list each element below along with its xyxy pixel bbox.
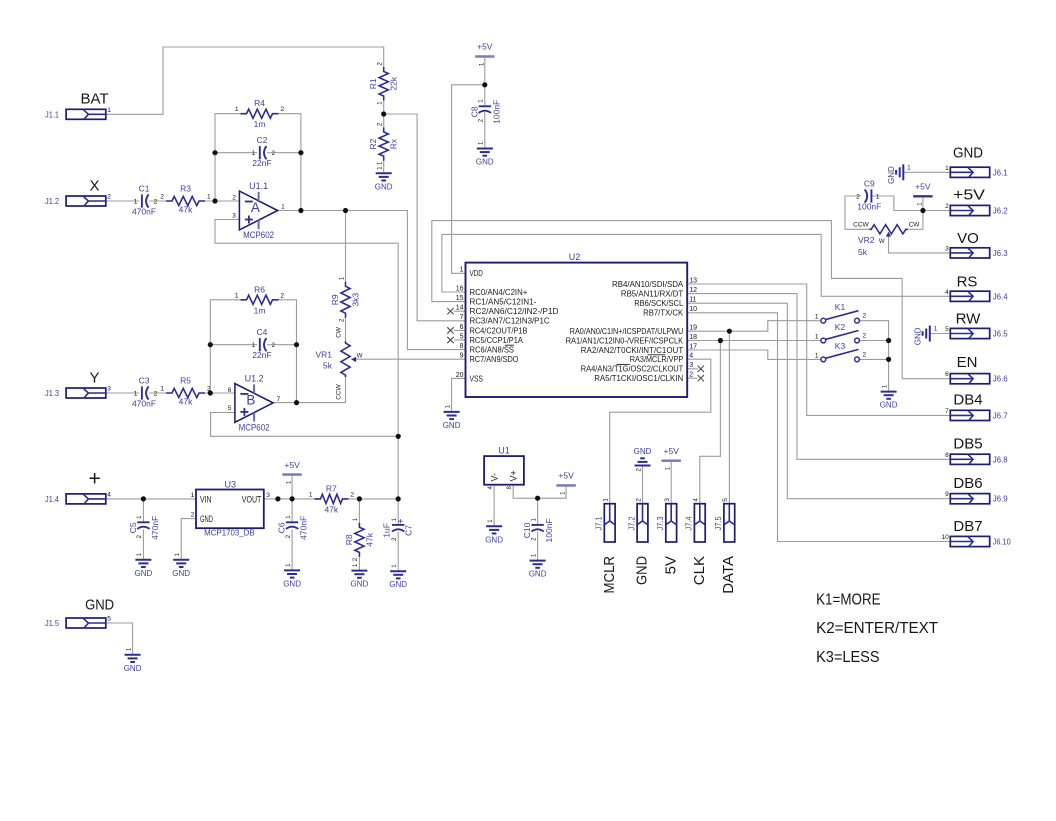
svg-text:K1: K1 <box>835 302 846 312</box>
svg-text:8: 8 <box>945 452 949 459</box>
svg-text:RA3/MCLR/VPP: RA3/MCLR/VPP <box>630 354 684 364</box>
svg-text:1: 1 <box>235 106 239 113</box>
connector J7.5 <box>724 504 735 542</box>
svg-text:C2: C2 <box>256 135 267 145</box>
svg-text:V+: V+ <box>508 470 518 481</box>
IC U1 supply pins <box>484 456 524 485</box>
svg-text:CLK: CLK <box>691 556 708 585</box>
capacitor C9 <box>870 189 872 202</box>
svg-text:2: 2 <box>107 194 111 201</box>
svg-text:5: 5 <box>722 498 729 502</box>
svg-text:5: 5 <box>945 326 949 333</box>
svg-text:5V: 5V <box>662 556 679 574</box>
wire C4 left <box>210 344 257 346</box>
svg-text:47k: 47k <box>324 504 338 514</box>
capacitor C7 <box>392 524 404 526</box>
svg-text:EN: EN <box>957 354 978 371</box>
node U1 bypass <box>535 496 540 501</box>
svg-text:470nF: 470nF <box>132 207 156 217</box>
svg-text:U2: U2 <box>569 252 581 262</box>
svg-text:9: 9 <box>460 353 464 360</box>
svg-text:C6: C6 <box>277 522 287 533</box>
connector J6.4 <box>950 291 989 301</box>
svg-text:470nF: 470nF <box>150 516 160 540</box>
power +5V C8 <box>475 55 494 57</box>
svg-text:1: 1 <box>945 165 949 172</box>
wire C2 right <box>267 152 301 154</box>
svg-text:4: 4 <box>693 498 700 502</box>
wire K3 to ground bus <box>859 358 888 360</box>
wire J1.4 to U3 VIN <box>106 498 196 500</box>
node J6.2 +5V <box>920 208 925 213</box>
connector J6.7 <box>950 410 989 420</box>
svg-text:5k: 5k <box>323 361 333 371</box>
wire U2 VSS to ground <box>452 378 466 412</box>
svg-text:DB5: DB5 <box>953 436 982 453</box>
switch K1 <box>821 318 826 323</box>
svg-text:U1: U1 <box>498 446 510 456</box>
wire R1 to R2 <box>383 101 385 128</box>
ground J6.5 <box>929 326 931 342</box>
wire C5 to ground <box>142 530 144 560</box>
ground U3 <box>173 559 189 561</box>
wire J6.1 GND <box>903 171 950 173</box>
potentiometer VR2 <box>869 225 908 234</box>
ground R8 <box>351 570 367 572</box>
svg-text:47k: 47k <box>179 205 193 215</box>
wire C6 to ground <box>291 530 293 571</box>
svg-text:J1.3: J1.3 <box>45 388 59 398</box>
wire C6 up <box>291 499 293 522</box>
svg-text:2: 2 <box>272 150 276 157</box>
svg-text:DB7: DB7 <box>953 518 982 535</box>
IC U3 MCP1703 <box>196 490 264 529</box>
svg-text:18: 18 <box>689 334 697 341</box>
ground U1 <box>486 525 502 527</box>
node VOUT stub <box>275 496 280 501</box>
wire C5 up <box>142 499 144 522</box>
wire R8 top <box>358 499 360 523</box>
svg-text:12: 12 <box>689 287 697 294</box>
svg-text:GND: GND <box>880 401 898 410</box>
power +5V U1 <box>556 484 575 486</box>
svg-text:K3=LESS: K3=LESS <box>816 649 880 666</box>
svg-text:J7.1: J7.1 <box>594 516 604 530</box>
svg-text:VR1: VR1 <box>315 350 332 360</box>
wire VR2 wiper to J6.3 VO <box>889 234 951 253</box>
svg-text:C3: C3 <box>139 376 150 386</box>
svg-text:1: 1 <box>603 498 610 502</box>
svg-text:1: 1 <box>815 334 819 341</box>
wire U2 RB5 to J6.8 DB5 <box>687 294 950 460</box>
wire A output to R9 <box>345 211 347 282</box>
node DATA <box>727 329 732 334</box>
svg-text:1: 1 <box>160 386 164 393</box>
svg-text:J6.7: J6.7 <box>993 410 1008 420</box>
wire U2 RB6 to J6.9 DB6 <box>687 303 950 499</box>
wire U2 RC1 to J6.6 EN <box>432 221 951 379</box>
svg-text:1: 1 <box>460 267 464 274</box>
svg-text:K1=MORE: K1=MORE <box>816 592 881 609</box>
node B in <box>208 390 213 395</box>
svg-text:R2: R2 <box>368 138 378 149</box>
wire C1 to R3 <box>149 200 166 202</box>
svg-text:1: 1 <box>281 204 285 211</box>
wire B output to VR1 <box>273 377 345 403</box>
wire R8 to ground <box>358 557 360 571</box>
capacitor C5 <box>137 521 149 523</box>
svg-text:1m: 1m <box>254 119 266 129</box>
svg-text:C1: C1 <box>139 184 150 194</box>
svg-text:1: 1 <box>309 491 313 498</box>
svg-text:3k3: 3k3 <box>351 293 361 307</box>
connector J6.8 <box>950 454 989 464</box>
svg-text:X: X <box>89 177 99 194</box>
node B out fb <box>294 400 299 405</box>
connector J6.1 <box>950 167 989 177</box>
svg-text:5k: 5k <box>858 247 868 257</box>
svg-text:470nF: 470nF <box>132 399 156 409</box>
svg-text:DB4: DB4 <box>953 391 982 408</box>
svg-text:RB6/SCK/SCL: RB6/SCK/SCL <box>634 298 683 308</box>
ground C5 <box>135 559 151 561</box>
svg-text:1: 1 <box>134 391 138 398</box>
wire C8 to ground <box>484 112 486 149</box>
svg-text:BAT: BAT <box>80 90 108 107</box>
svg-text:U1.2: U1.2 <box>245 373 264 383</box>
resistor R8 <box>355 523 364 557</box>
ground C7 <box>390 570 406 572</box>
svg-text:RC3/AN7/C12IN3/P1C: RC3/AN7/C12IN3/P1C <box>470 316 550 326</box>
wire U2 RB7 to J6.10 DB7 <box>687 313 950 542</box>
svg-text:100nF: 100nF <box>491 100 501 124</box>
svg-text:GND: GND <box>485 535 503 544</box>
svg-text:17: 17 <box>689 343 697 350</box>
capacitor C6 <box>286 521 298 523</box>
resistor R5 <box>166 388 205 397</box>
wire +5V to VOUT junction <box>291 476 293 499</box>
svg-text:MCP602: MCP602 <box>243 230 274 240</box>
wire K2 to ground bus <box>859 340 888 342</box>
node A out fb <box>298 208 303 213</box>
svg-text:+: + <box>395 518 405 523</box>
capacitor C3 <box>141 386 143 399</box>
svg-text:C7: C7 <box>404 525 414 536</box>
wire VR1 wiper to U2 RC7 <box>355 358 466 360</box>
svg-text:GND: GND <box>85 596 114 613</box>
node B fb left <box>208 342 213 347</box>
svg-text:6: 6 <box>460 324 464 331</box>
connector J6.9 <box>950 494 989 504</box>
svg-text:GND: GND <box>172 569 190 578</box>
svg-text:DB6: DB6 <box>953 475 982 492</box>
svg-text:V-: V- <box>489 473 499 482</box>
svg-text:J1.1: J1.1 <box>45 109 59 119</box>
svg-text:3: 3 <box>689 362 693 369</box>
ground U2 VSS <box>444 411 460 413</box>
wire B feedback left <box>210 300 240 393</box>
svg-text:J7.5: J7.5 <box>713 516 723 530</box>
svg-text:RC1/AN5/C12IN1-: RC1/AN5/C12IN1- <box>470 297 537 307</box>
svg-text:7: 7 <box>945 408 949 415</box>
svg-text:K2: K2 <box>835 322 846 332</box>
svg-text:C5: C5 <box>128 522 138 533</box>
svg-text:1: 1 <box>876 194 880 201</box>
svg-text:GND: GND <box>914 327 923 345</box>
svg-text:3: 3 <box>664 498 671 502</box>
no-connect RA5 <box>698 375 704 381</box>
svg-text:13: 13 <box>689 277 697 284</box>
svg-text:2: 2 <box>281 106 285 113</box>
svg-text:1: 1 <box>107 107 111 114</box>
node A in <box>212 198 217 203</box>
svg-text:47k: 47k <box>179 397 193 407</box>
svg-text:22k: 22k <box>389 76 399 90</box>
wire J1.1 BAT to R1 <box>106 47 384 114</box>
svg-text:GND: GND <box>634 556 651 585</box>
svg-text:RB4/AN10/SDI/SDA: RB4/AN10/SDI/SDA <box>612 279 684 289</box>
svg-text:RC2/AN6/C12/IN2-/P1D: RC2/AN6/C12/IN2-/P1D <box>470 306 559 316</box>
switch K2 <box>821 338 826 343</box>
wire U1 V- to ground <box>493 485 495 527</box>
svg-text:RC0/AN4/C2IN+: RC0/AN4/C2IN+ <box>470 287 528 297</box>
wire U1 V+ to +5V <box>513 485 566 499</box>
IC U2 PIC16F690 <box>466 263 688 397</box>
svg-text:J6.4: J6.4 <box>993 291 1008 301</box>
wire C7 to ground <box>397 532 399 571</box>
svg-text:+5V: +5V <box>477 42 493 52</box>
svg-text:GND: GND <box>443 421 461 430</box>
svg-text:Y: Y <box>89 370 99 387</box>
svg-text:GND: GND <box>529 570 547 579</box>
wire U2 RA2 to K3 <box>687 350 821 359</box>
svg-text:U3: U3 <box>225 479 237 489</box>
connector J1.5 <box>66 618 106 628</box>
wire K1 to ground bus <box>859 321 888 392</box>
wire U3 GND pin to ground <box>181 519 196 560</box>
svg-text:2: 2 <box>945 203 949 210</box>
node B fb right <box>294 342 299 347</box>
svg-text:+5V: +5V <box>915 182 931 192</box>
svg-text:U1.1: U1.1 <box>249 181 268 191</box>
svg-text:VOUT: VOUT <box>242 494 262 504</box>
wire U2 RA4 stub <box>687 368 697 370</box>
wire C3 to R5 <box>149 392 166 394</box>
potentiometer VR1 <box>341 341 350 377</box>
connector J1.3 <box>66 388 106 398</box>
wire R2 to ground <box>383 157 385 174</box>
svg-text:W: W <box>879 239 885 245</box>
svg-text:20: 20 <box>456 372 464 379</box>
svg-text:100nF: 100nF <box>544 518 554 542</box>
connector J6.10 <box>950 536 989 546</box>
wire +5V junction to U2 VDD <box>452 85 485 273</box>
svg-text:8: 8 <box>460 343 464 350</box>
svg-text:1: 1 <box>815 352 819 359</box>
svg-text:RC7/AN9/SDO: RC7/AN9/SDO <box>470 354 519 364</box>
wire CLK to J7.4 <box>700 341 721 504</box>
svg-text:R6: R6 <box>254 284 265 294</box>
svg-text:GND: GND <box>200 514 213 524</box>
svg-text:VSS: VSS <box>470 373 484 383</box>
connector J6.5 <box>950 328 989 338</box>
resistor R2 <box>379 128 388 161</box>
svg-text:+5V: +5V <box>953 186 985 203</box>
svg-text:+5V: +5V <box>558 471 574 481</box>
svg-text:CW: CW <box>909 222 921 229</box>
connector J1.4 <box>66 494 106 504</box>
connector J1.1 <box>66 109 106 119</box>
svg-text:J7.2: J7.2 <box>626 516 636 530</box>
node BAT divider <box>381 111 386 116</box>
svg-text:16: 16 <box>456 285 464 292</box>
svg-text:CW: CW <box>335 326 342 338</box>
svg-text:11: 11 <box>689 297 696 304</box>
resistor R9 <box>341 282 350 318</box>
svg-text:2: 2 <box>191 512 195 519</box>
svg-text:J1.4: J1.4 <box>45 494 59 504</box>
svg-text:J6.9: J6.9 <box>993 494 1008 504</box>
svg-text:Rx: Rx <box>389 138 399 149</box>
node A out R9 <box>343 208 348 213</box>
wire A feedback left <box>215 114 241 201</box>
wire C9 right to +5V junction <box>871 196 950 211</box>
node K3 gnd <box>886 357 891 362</box>
svg-text:RC4/C2OUT/P1B: RC4/C2OUT/P1B <box>470 325 528 335</box>
svg-text:7: 7 <box>277 396 281 403</box>
svg-text:2: 2 <box>350 491 354 498</box>
wire R7 to reference node <box>348 498 398 500</box>
wire U2 RC5 stub <box>454 339 466 341</box>
svg-text:R5: R5 <box>180 376 191 386</box>
wire U2 RC0 to J6.4 RS <box>442 234 950 296</box>
svg-text:VR2: VR2 <box>858 235 875 245</box>
power +5V J7.3 <box>662 460 681 462</box>
svg-text:GND: GND <box>887 166 896 184</box>
svg-text:RC6/AN8/SS: RC6/AN8/SS <box>470 345 515 355</box>
svg-text:1: 1 <box>252 150 256 157</box>
svg-text:19: 19 <box>689 325 697 332</box>
svg-text:4: 4 <box>107 491 111 498</box>
svg-text:7: 7 <box>460 314 464 321</box>
svg-text:C9: C9 <box>864 179 875 189</box>
svg-text:1: 1 <box>815 314 819 321</box>
connector J7.3 <box>666 504 677 542</box>
power +5V J6.2 <box>913 195 932 197</box>
wire C10 to ground <box>537 532 539 561</box>
svg-text:1m: 1m <box>254 305 266 315</box>
switch K3 <box>821 357 826 362</box>
wire R6 right to B output <box>279 300 297 403</box>
connector J6.3 <box>950 248 989 258</box>
svg-text:9: 9 <box>945 491 949 498</box>
svg-text:5: 5 <box>228 405 232 412</box>
svg-text:1uF: 1uF <box>382 523 392 538</box>
svg-text:1: 1 <box>207 194 211 201</box>
svg-text:2: 2 <box>863 333 867 340</box>
wire R4 right to A output <box>279 114 301 211</box>
svg-text:2: 2 <box>863 351 867 358</box>
svg-text:C10: C10 <box>522 522 532 538</box>
svg-text:2: 2 <box>856 194 860 201</box>
wire DATA to J7.5 <box>728 331 730 504</box>
svg-text:RB7/TX/CK: RB7/TX/CK <box>643 308 684 318</box>
svg-text:K3: K3 <box>835 341 846 351</box>
wire B pin 5 to reference <box>211 413 399 437</box>
ground J7.2 <box>635 465 651 467</box>
wire A output to U2 RC6 <box>278 211 466 350</box>
svg-text:MCLR: MCLR <box>601 556 618 594</box>
svg-text:RB5/AN11/RX/DT: RB5/AN11/RX/DT <box>621 289 683 299</box>
ground C10 <box>530 560 546 562</box>
ground J1.5 <box>125 654 141 656</box>
svg-text:RW: RW <box>956 311 982 328</box>
svg-text:J6.2: J6.2 <box>993 206 1008 216</box>
node +5V/C8 <box>482 82 487 87</box>
wire J7.3 to +5V <box>670 462 672 504</box>
wire U2 RC2 stub <box>454 310 466 312</box>
wire A pin 3 to reference <box>215 220 398 499</box>
node R8 top <box>357 496 362 501</box>
resistor R7 <box>315 494 349 503</box>
svg-text:GND: GND <box>953 145 983 162</box>
ground J6.1 <box>902 164 904 180</box>
connector J7.1 <box>604 504 615 542</box>
svg-text:10: 10 <box>689 306 697 313</box>
svg-text:J6.5: J6.5 <box>993 329 1008 339</box>
svg-text:RS: RS <box>957 273 978 290</box>
svg-text:470nF: 470nF <box>299 516 309 540</box>
no-connect RC5 <box>447 337 453 343</box>
svg-text:GND: GND <box>476 158 494 167</box>
svg-text:VDD: VDD <box>470 268 483 278</box>
wire R5 to op-amp B pin 6 <box>205 392 235 394</box>
resistor R4 <box>241 109 279 118</box>
connector J6.6 <box>950 374 989 384</box>
svg-text:B: B <box>246 393 255 408</box>
capacitor C8 <box>479 105 491 107</box>
node VOUT <box>290 496 295 501</box>
svg-text:RC5/CCP1/P1A: RC5/CCP1/P1A <box>470 335 524 345</box>
svg-text:22nF: 22nF <box>252 158 271 168</box>
svg-text:VIN: VIN <box>200 494 212 504</box>
capacitor C4 <box>259 338 261 351</box>
svg-text:47k: 47k <box>364 532 374 546</box>
wire U2 RA3 MCLR to J7.1 <box>610 359 711 504</box>
wire U2 RA5 stub <box>687 377 697 379</box>
svg-text:1: 1 <box>235 292 239 299</box>
node VIN <box>141 496 146 501</box>
svg-text:GND: GND <box>389 580 407 589</box>
svg-text:A: A <box>251 200 260 215</box>
svg-text:R4: R4 <box>254 98 265 108</box>
svg-text:2: 2 <box>207 386 211 393</box>
svg-text:J1.5: J1.5 <box>45 618 59 628</box>
no-connect RC2 <box>447 308 453 314</box>
svg-text:R3: R3 <box>180 184 191 194</box>
svg-text:3: 3 <box>266 492 270 499</box>
svg-text:R8: R8 <box>344 534 354 545</box>
svg-text:VO: VO <box>957 230 979 247</box>
wire +5V to C8 <box>484 58 486 106</box>
svg-text:GND: GND <box>351 580 369 589</box>
wire C7 up <box>397 499 399 525</box>
wire R1/R2 junction to U2 RC3 <box>384 114 466 321</box>
wire U2 RA1 to K2 <box>687 340 821 342</box>
node A fb left <box>212 150 217 155</box>
svg-text:10: 10 <box>942 534 950 541</box>
svg-text:GND: GND <box>135 569 153 578</box>
